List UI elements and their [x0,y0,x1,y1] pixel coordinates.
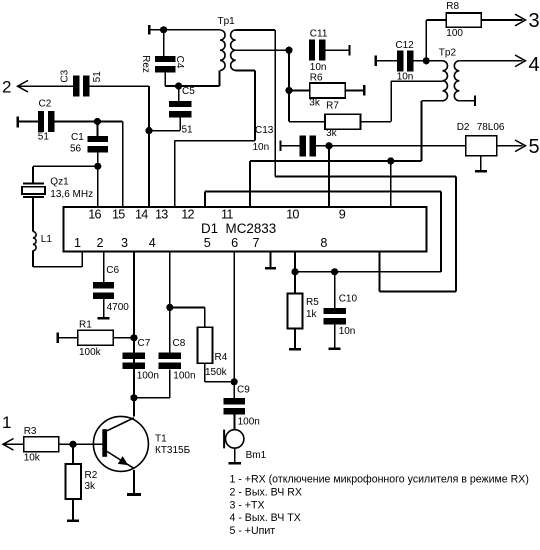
inductor L1 [33,232,52,251]
wire [289,90,325,121]
svg-text:Tp2: Tp2 [439,48,457,59]
capacitor C2 [17,98,55,142]
svg-text:3k: 3k [326,128,338,139]
wire [205,363,234,382]
resistor R6 [289,73,364,109]
wire (pin11 to Tp2 bottom) [250,161,422,207]
svg-text:C8: C8 [173,338,186,349]
svg-text:C5: C5 [182,86,195,97]
wire [421,101,442,161]
capacitor C4 (Rez) [140,55,185,73]
resistor R3 [3,426,73,463]
wire [54,122,122,208]
svg-text:100k: 100k [79,347,102,358]
svg-text:Tp1: Tp1 [218,16,236,27]
ground (pin 7) [265,252,276,270]
wire [170,307,205,327]
node pin8 junction [291,268,298,275]
wire (pin6) [233,252,235,398]
node pin9 junction [387,157,394,164]
svg-text:D1 MC2833: D1 MC2833 [201,221,276,236]
svg-text:5 - +Uпит: 5 - +Uпит [230,525,276,537]
svg-text:1: 1 [74,236,81,250]
svg-text:R1: R1 [79,320,92,331]
wire [32,198,34,232]
node 1 (port arrow) [2,413,14,450]
svg-text:14: 14 [135,208,148,222]
wire [97,122,99,136]
svg-text:100n: 100n [137,371,159,382]
node Rez/Tp1 junction [160,26,167,33]
terminal (Rez top) [148,25,164,35]
wire [33,251,82,267]
wire [179,71,220,101]
svg-text:100n: 100n [238,417,260,428]
svg-text:C7: C7 [138,338,151,349]
svg-text:D2: D2 [457,122,470,133]
svg-text:R3: R3 [24,426,37,437]
capacitor C6 [93,252,129,313]
svg-text:C6: C6 [106,265,119,276]
wire (emitter) [133,470,135,493]
svg-text:4: 4 [149,236,156,250]
transformer Tp2 [439,48,460,101]
node 5 (port arrow) [515,136,540,158]
svg-text:16: 16 [88,208,101,222]
svg-text:3k: 3k [309,98,321,109]
svg-text:3k: 3k [85,481,97,492]
svg-text:C2: C2 [39,98,52,109]
wire [89,86,149,207]
terminal (C11 right) [348,45,350,56]
node R3/R2/base junction [69,441,76,448]
svg-text:10n: 10n [310,62,327,73]
ground (R2) [67,499,79,522]
svg-text:R6: R6 [310,73,323,84]
svg-text:9: 9 [339,208,346,222]
svg-text:7: 7 [252,236,259,250]
wire [33,166,98,207]
svg-text:C13: C13 [255,125,274,136]
svg-text:L1: L1 [41,234,53,245]
capacitor C1 [70,132,108,155]
terminal (Tp2 right bottom) [474,96,476,107]
node 2 (port arrow) [2,78,28,97]
wire [175,71,255,208]
capacitor C10 [323,272,357,337]
svg-text:1 - +RX (отключение микрофонно: 1 - +RX (отключение микрофонного усилите… [230,474,529,486]
svg-text:2: 2 [97,236,104,250]
wire [18,85,74,87]
svg-text:C10: C10 [339,293,358,304]
svg-text:2 - Вых. ВЧ RX: 2 - Вых. ВЧ RX [230,486,302,498]
resistor R1 [57,320,134,358]
capacitor C3 [59,69,103,96]
ground (D2) [475,156,487,173]
ground (C10) [329,324,341,350]
svg-text:Rez: Rez [140,55,151,73]
capacitor C11 [309,29,328,73]
node C1/Qz1/pin16 junction [94,163,101,170]
svg-text:51: 51 [92,71,103,83]
svg-text:15: 15 [112,208,125,222]
svg-text:R5: R5 [306,297,319,308]
wire (pin4) [169,252,171,353]
capacitor C9 [224,385,260,428]
node C13/pin10 junction [325,142,332,149]
svg-text:4700: 4700 [107,302,130,313]
capacitor C7 [123,338,159,382]
svg-text:13,6 MHz: 13,6 MHz [50,189,93,200]
capacitor C5 [169,86,195,136]
wire [149,117,180,131]
wire [164,30,220,56]
node C10 junction [331,268,338,275]
wire (Tp1 top to pin below 8) [275,30,456,292]
svg-text:R4: R4 [215,352,228,363]
crystal Qz1 [22,177,93,200]
node R6 junction [285,87,292,94]
svg-text:5: 5 [529,136,540,158]
svg-text:11: 11 [221,208,233,222]
op-amp U1 : IC D1 MC2833 [63,207,426,252]
svg-text:КТ315Б: КТ315Б [155,445,191,456]
svg-text:10: 10 [286,208,299,222]
node C4/C5/Tp1 junction [175,82,182,89]
regulator D2 78L06 [457,122,505,156]
wire [390,161,392,207]
resistor R5 [288,272,320,329]
resistor R7 [325,101,361,140]
node 3 (port arrow) [515,10,540,32]
wire [328,146,330,207]
wire [134,369,170,397]
svg-text:1k: 1k [306,309,318,320]
node C3/C5/pin14 junction [145,127,152,134]
svg-text:3 - +TX: 3 - +TX [230,499,265,511]
capacitor C12 [375,40,414,83]
wire [236,49,289,51]
svg-text:6: 6 [231,236,238,250]
node R4/C9 junction [231,378,238,385]
svg-text:T1: T1 [155,434,167,445]
node 4 (port arrow) [515,54,540,76]
wire [325,49,349,51]
svg-text:13: 13 [155,208,168,222]
svg-text:Bm1: Bm1 [246,450,267,461]
resistor R2 [65,444,97,499]
svg-text:8: 8 [320,236,327,250]
ground (R5) [289,329,301,351]
ground (T1) [127,493,141,496]
legend [230,474,529,537]
node C2/C1 junction [94,118,101,125]
resistor R4 [198,327,228,378]
pin numbers top [88,208,346,222]
svg-text:10n: 10n [339,326,356,337]
wire [97,152,99,166]
svg-text:C3: C3 [59,69,70,82]
resistor R8 [426,1,522,61]
ground (Bm1) [229,462,241,465]
terminal (R6 right) [363,85,365,96]
svg-text:100n: 100n [173,371,195,382]
svg-text:C9: C9 [237,385,250,396]
node Tp1/C11 junction [285,47,292,54]
svg-text:R8: R8 [446,1,459,12]
svg-text:2: 2 [2,78,11,97]
svg-text:150k: 150k [205,367,228,378]
svg-text:10k: 10k [24,452,41,463]
capacitor C13 [253,125,317,156]
node C12/R8/Tp2 junction [423,57,430,64]
svg-text:51: 51 [38,131,50,142]
svg-text:4: 4 [529,54,540,76]
microphone Bm1 [224,430,267,461]
svg-text:C1: C1 [71,132,84,143]
node C8/R4 junction [166,304,173,311]
svg-text:C12: C12 [395,40,414,51]
svg-text:1: 1 [2,413,11,432]
transistor T1 KT315B [93,416,190,471]
svg-text:100: 100 [446,28,463,39]
pin numbers bottom [74,236,327,250]
wire [236,29,276,31]
svg-text:R2: R2 [85,470,98,481]
wire [288,50,290,90]
wire [459,100,475,102]
svg-text:C11: C11 [310,29,328,40]
transformer Tp1 [218,16,236,70]
wire [234,414,236,430]
wire [497,145,523,147]
wire [294,252,296,272]
node C7/C8/collector junction [130,394,137,401]
wire [165,72,179,86]
wire (base) [73,443,102,445]
svg-text:12: 12 [181,208,194,222]
svg-text:10n: 10n [253,142,270,153]
svg-text:3: 3 [121,236,128,250]
svg-text:78L06: 78L06 [477,122,505,133]
wire [234,448,236,462]
wire (pin3) [133,252,135,417]
wire (pin12 bus) [205,192,441,272]
svg-text:4 - Вых. ВЧ TX: 4 - Вых. ВЧ TX [230,512,301,524]
svg-text:R7: R7 [326,101,339,112]
ground (C6) [98,299,110,320]
svg-text:5: 5 [204,236,211,250]
svg-text:51: 51 [182,125,194,136]
svg-text:3: 3 [529,10,540,32]
svg-text:C4: C4 [174,56,185,69]
svg-text:56: 56 [70,144,82,155]
svg-text:10n: 10n [397,72,414,83]
wire [459,60,522,62]
node R1/pin3 junction [130,334,137,341]
svg-text:Qz1: Qz1 [50,177,69,188]
wire [360,81,442,122]
wire [316,145,466,147]
capacitor C8 [159,338,196,382]
wire [413,60,442,62]
